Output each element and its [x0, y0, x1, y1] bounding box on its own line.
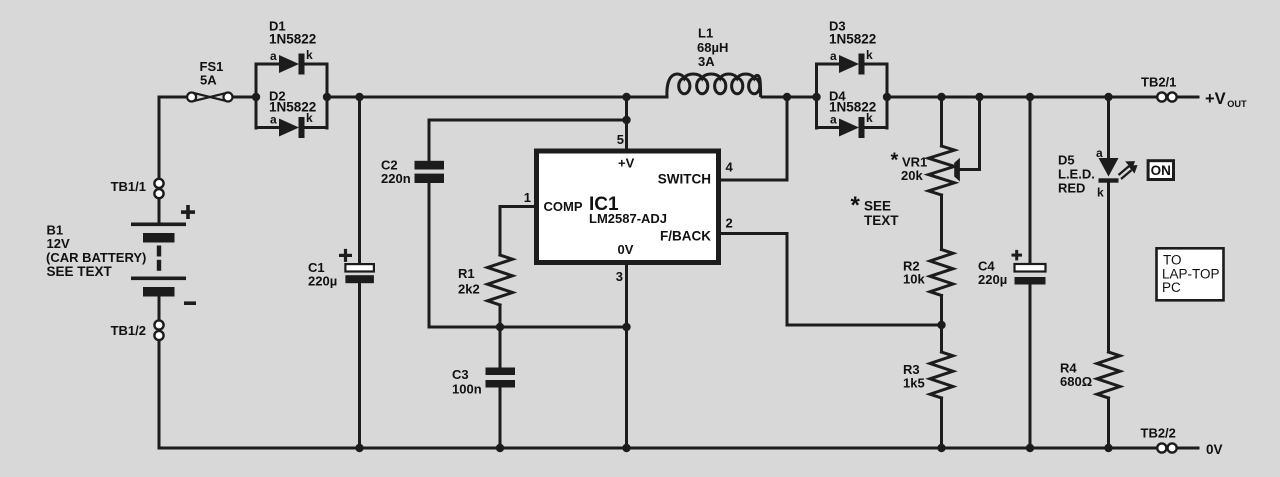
svg-text:k: k [866, 111, 873, 125]
svg-text:0V: 0V [1206, 442, 1223, 457]
svg-text:L.E.D.: L.E.D. [1058, 167, 1095, 182]
svg-text:4: 4 [726, 160, 734, 175]
svg-text:TEXT: TEXT [864, 213, 899, 228]
svg-text:R1: R1 [458, 266, 475, 281]
svg-text:TB1/2: TB1/2 [111, 323, 146, 338]
svg-text:a: a [270, 49, 277, 63]
svg-text:TO: TO [1163, 253, 1182, 268]
svg-text:C3: C3 [452, 367, 469, 382]
svg-text:+V: +V [618, 156, 635, 171]
svg-text:k: k [306, 48, 313, 62]
svg-text:2: 2 [726, 216, 733, 231]
svg-text:a: a [830, 113, 837, 127]
svg-text:68µH: 68µH [697, 40, 728, 55]
svg-text:(CAR BATTERY): (CAR BATTERY) [46, 250, 146, 265]
svg-text:1k5: 1k5 [903, 376, 925, 391]
svg-text:3A: 3A [698, 54, 715, 69]
svg-text:SEE TEXT: SEE TEXT [47, 264, 113, 279]
svg-text:+V: +V [1205, 90, 1226, 108]
svg-text:k: k [306, 111, 313, 125]
svg-text:RED: RED [1058, 181, 1085, 196]
svg-text:D5: D5 [1058, 153, 1075, 168]
svg-text:TB2/1: TB2/1 [1141, 75, 1176, 90]
svg-text:*: * [891, 150, 899, 172]
svg-text:a: a [1096, 146, 1103, 160]
svg-text:20k: 20k [901, 168, 923, 183]
svg-text:a: a [830, 49, 837, 63]
svg-text:SWITCH: SWITCH [658, 172, 711, 187]
svg-text:1: 1 [524, 190, 531, 205]
svg-text:2k2: 2k2 [458, 282, 480, 297]
svg-text:ON: ON [1151, 163, 1171, 178]
svg-text:100n: 100n [452, 382, 482, 397]
svg-text:220µ: 220µ [978, 272, 1007, 287]
svg-text:k: k [866, 48, 873, 62]
svg-text:1N5822: 1N5822 [269, 32, 316, 47]
svg-text:F/BACK: F/BACK [660, 229, 711, 244]
svg-text:12V: 12V [47, 236, 70, 251]
svg-text:*: * [851, 192, 861, 219]
svg-text:k: k [1097, 186, 1104, 200]
svg-text:LM2587-ADJ: LM2587-ADJ [589, 211, 667, 226]
svg-text:TB2/2: TB2/2 [1141, 426, 1176, 441]
svg-text:TB1/1: TB1/1 [111, 179, 146, 194]
svg-text:a: a [270, 113, 277, 127]
svg-text:680Ω: 680Ω [1060, 374, 1092, 389]
svg-text:220n: 220n [381, 171, 411, 186]
svg-text:OUT: OUT [1227, 99, 1247, 109]
svg-text:220µ: 220µ [308, 274, 337, 289]
svg-text:L1: L1 [698, 26, 713, 41]
svg-text:1N5822: 1N5822 [829, 32, 876, 47]
svg-text:0V: 0V [618, 242, 634, 257]
svg-text:10k: 10k [903, 272, 925, 287]
svg-text:PC: PC [1162, 280, 1181, 295]
svg-text:SEE: SEE [864, 199, 891, 214]
svg-text:3: 3 [616, 269, 623, 284]
svg-text:5A: 5A [200, 73, 217, 88]
svg-text:5: 5 [617, 132, 624, 147]
svg-text:COMP: COMP [544, 199, 583, 214]
